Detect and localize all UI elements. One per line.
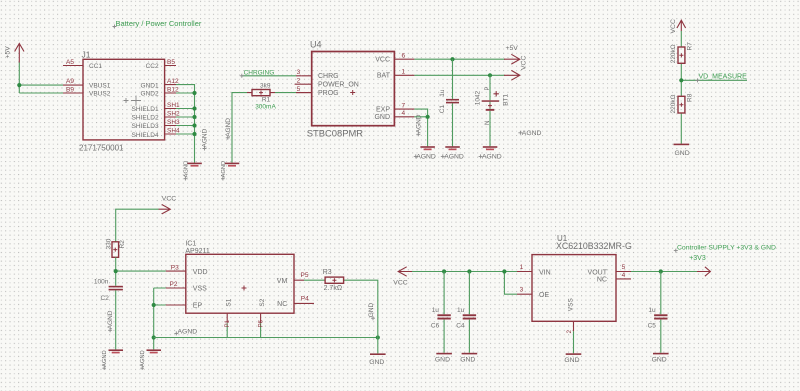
svg-text:BT1: BT1 <box>502 93 509 105</box>
svg-text:AGND: AGND <box>102 350 108 367</box>
svg-text:1u: 1u <box>439 89 446 97</box>
svg-text:AGND: AGND <box>202 128 209 147</box>
svg-text:P6: P6 <box>258 319 264 327</box>
svg-text:C1: C1 <box>439 105 446 114</box>
svg-text:B12: B12 <box>167 86 179 93</box>
svg-text:SH4: SH4 <box>167 127 180 134</box>
svg-text:SHIELD1: SHIELD1 <box>131 106 158 113</box>
svg-text:S1: S1 <box>226 298 233 306</box>
svg-text:A12: A12 <box>167 78 179 85</box>
svg-text:300mA: 300mA <box>255 104 276 111</box>
svg-text:P3: P3 <box>171 265 179 272</box>
svg-text:1u: 1u <box>432 307 440 314</box>
svg-text:Controller SUPPLY +3V3 & GND: Controller SUPPLY +3V3 & GND <box>677 244 776 251</box>
svg-text:AGND: AGND <box>178 328 198 335</box>
svg-text:1042: 1042 <box>475 90 482 105</box>
svg-text:CC2: CC2 <box>146 63 159 70</box>
svg-text:EXP: EXP <box>376 107 390 114</box>
svg-text:NC: NC <box>277 301 287 308</box>
svg-text:330: 330 <box>106 238 113 249</box>
svg-text:AGND: AGND <box>482 153 502 160</box>
svg-text:IC1: IC1 <box>185 241 196 248</box>
svg-text:VIN: VIN <box>539 269 551 276</box>
svg-text:SHIELD3: SHIELD3 <box>131 123 158 130</box>
svg-text:P5: P5 <box>301 272 309 279</box>
svg-text:VBUS1: VBUS1 <box>89 82 111 89</box>
svg-text:220kΩ: 220kΩ <box>670 44 677 63</box>
svg-text:U4: U4 <box>310 40 322 50</box>
svg-text:VCC: VCC <box>670 19 677 33</box>
svg-text:+5V: +5V <box>5 46 12 59</box>
svg-text:GND: GND <box>374 114 390 121</box>
svg-text:VCC: VCC <box>375 57 390 64</box>
svg-text:AGND: AGND <box>225 118 232 137</box>
svg-text:SHIELD2: SHIELD2 <box>131 115 158 122</box>
svg-text:C6: C6 <box>431 322 440 329</box>
svg-text:7: 7 <box>402 102 406 109</box>
svg-text:R8: R8 <box>687 93 694 102</box>
svg-text:3k9: 3k9 <box>260 83 271 90</box>
svg-text:2: 2 <box>297 78 301 85</box>
svg-text:GND: GND <box>368 302 375 317</box>
svg-text:PROG: PROG <box>318 90 339 97</box>
svg-text:CC1: CC1 <box>89 63 102 70</box>
svg-text:4: 4 <box>402 110 406 117</box>
svg-text:AGND: AGND <box>415 114 422 133</box>
svg-text:AGND: AGND <box>416 153 436 160</box>
svg-text:J1: J1 <box>82 49 91 59</box>
svg-text:GND: GND <box>652 357 667 364</box>
svg-text:P: P <box>485 86 491 90</box>
svg-text:1u: 1u <box>648 307 656 314</box>
svg-text:GND: GND <box>564 357 579 364</box>
svg-text:AGND: AGND <box>107 310 114 329</box>
svg-text:VCC: VCC <box>520 56 527 70</box>
svg-text:3: 3 <box>297 69 301 76</box>
svg-text:VBUS2: VBUS2 <box>89 91 111 98</box>
svg-text:S2: S2 <box>259 298 266 306</box>
svg-text:P4: P4 <box>301 295 309 302</box>
svg-text:CHRGING: CHRGING <box>244 70 275 77</box>
svg-text:5: 5 <box>297 86 301 93</box>
svg-text:VDD: VDD <box>193 269 208 276</box>
svg-text:1u: 1u <box>457 307 465 314</box>
svg-text:VSS: VSS <box>193 286 207 293</box>
svg-text:AGND: AGND <box>522 130 542 137</box>
svg-text:POWER_ON: POWER_ON <box>318 82 359 89</box>
svg-text:EP: EP <box>193 303 203 310</box>
svg-text:VM: VM <box>277 278 288 285</box>
svg-text:GND1: GND1 <box>141 82 159 89</box>
svg-text:C5: C5 <box>648 322 657 329</box>
svg-text:+3V3: +3V3 <box>689 255 706 262</box>
svg-text:100n: 100n <box>94 279 109 286</box>
svg-text:+5V: +5V <box>506 45 519 52</box>
svg-text:P2: P2 <box>170 281 178 288</box>
svg-text:VSS: VSS <box>567 298 574 312</box>
svg-text:GND: GND <box>369 359 384 366</box>
svg-text:SH1: SH1 <box>167 102 180 109</box>
svg-text:AGND: AGND <box>183 161 189 178</box>
svg-text:2.7kΩ: 2.7kΩ <box>324 285 342 292</box>
svg-text:A5: A5 <box>66 59 74 66</box>
svg-text:VOUT: VOUT <box>588 269 608 276</box>
svg-text:220kΩ: 220kΩ <box>670 94 677 113</box>
svg-text:R7: R7 <box>687 42 694 51</box>
svg-text:XC6210B332MR-G: XC6210B332MR-G <box>556 241 632 251</box>
svg-text:CHRG: CHRG <box>318 73 339 80</box>
svg-text:GND: GND <box>435 357 450 364</box>
svg-text:1: 1 <box>402 69 406 76</box>
svg-text:4: 4 <box>622 272 626 279</box>
svg-text:C2: C2 <box>101 295 110 302</box>
svg-text:SHIELD4: SHIELD4 <box>131 132 158 139</box>
svg-text:GND: GND <box>460 357 475 364</box>
svg-text:N: N <box>485 121 491 125</box>
svg-text:AGND: AGND <box>444 153 464 160</box>
svg-text:P1: P1 <box>225 319 231 327</box>
svg-text:AP9211: AP9211 <box>185 248 209 255</box>
svg-text:STBC08PMR: STBC08PMR <box>307 128 363 139</box>
svg-text:VCC: VCC <box>393 279 407 286</box>
svg-text:VCC: VCC <box>162 196 176 203</box>
svg-text:NC: NC <box>597 277 607 284</box>
svg-text:AGND: AGND <box>221 161 227 178</box>
svg-text:R3: R3 <box>323 269 332 276</box>
svg-text:B9: B9 <box>66 86 74 93</box>
svg-text:GND: GND <box>675 150 690 157</box>
svg-text:C4: C4 <box>456 322 465 329</box>
svg-text:Battery / Power Controller: Battery / Power Controller <box>116 19 202 28</box>
svg-text:6: 6 <box>402 53 406 60</box>
svg-text:R1: R1 <box>262 97 271 104</box>
svg-text:SH2: SH2 <box>167 110 180 117</box>
svg-text:A9: A9 <box>66 78 74 85</box>
svg-text:1: 1 <box>520 264 524 271</box>
svg-text:GND2: GND2 <box>141 91 159 98</box>
svg-text:VD_MEASURE: VD_MEASURE <box>699 74 748 81</box>
svg-text:SH3: SH3 <box>167 119 180 126</box>
svg-text:BAT: BAT <box>377 73 391 80</box>
svg-text:B5: B5 <box>167 59 175 66</box>
svg-text:2171750001: 2171750001 <box>79 144 124 153</box>
svg-text:5: 5 <box>622 264 626 271</box>
svg-text:R2: R2 <box>119 240 126 249</box>
svg-text:OE: OE <box>539 292 549 299</box>
svg-text:AGND: AGND <box>140 350 146 367</box>
svg-text:3: 3 <box>520 287 524 294</box>
